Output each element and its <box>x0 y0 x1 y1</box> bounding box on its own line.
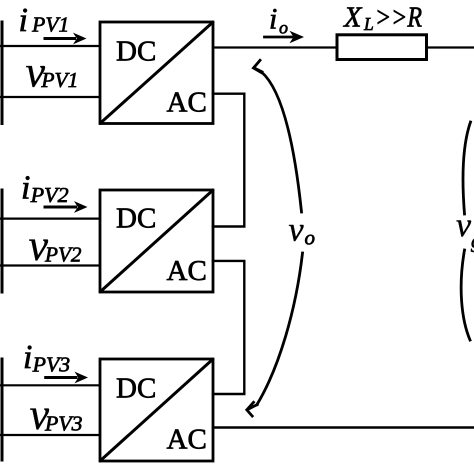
svg-text:PV2: PV2 <box>30 183 70 207</box>
svg-text:i: i <box>23 339 32 376</box>
svg-text:PV3: PV3 <box>32 353 71 377</box>
converter U3 box <box>100 359 213 461</box>
svg-text:DC: DC <box>116 36 156 68</box>
svg-text:AC: AC <box>167 423 207 455</box>
svg-text:v: v <box>289 212 305 249</box>
v_o arrowhead (top, pointing at top bus) <box>254 60 263 72</box>
label i_PV3 <box>23 339 70 377</box>
svg-text:i: i <box>269 3 277 36</box>
label v_PV2 <box>29 221 82 270</box>
label i_PV2 <box>21 170 69 208</box>
arrow: i_PV3 current direction <box>46 372 88 384</box>
label v_o <box>289 212 316 250</box>
arrow: i_o current direction <box>265 31 305 43</box>
wire: PV1 positive input <box>1 45 101 47</box>
svg-text:DC: DC <box>116 203 156 235</box>
svg-text:PV1: PV1 <box>40 68 78 92</box>
PV3 source lead (cropped at left edge) <box>1 359 4 460</box>
v_o measurement arc (lower segment) <box>257 253 303 405</box>
v_o measurement arc (upper segment) <box>262 72 302 212</box>
v_g measurement arc (upper segment, cropped at right) <box>463 122 471 214</box>
svg-text:X: X <box>343 3 363 34</box>
svg-text:i: i <box>21 170 30 207</box>
label v_PV3 <box>30 390 83 439</box>
svg-text:o: o <box>305 226 316 250</box>
wire: U1 to U2 series link <box>213 94 244 227</box>
wire: PV1 negative input <box>1 96 101 98</box>
arrow: i_PV1 current direction <box>45 33 87 45</box>
wire: to grid (right edge) <box>427 46 474 48</box>
svg-text:i: i <box>19 2 28 39</box>
svg-text:AC: AC <box>167 255 207 287</box>
converter U2 diagonal <box>101 191 213 292</box>
label X_L>>R <box>343 3 422 34</box>
impedance X_L (grid inductance) <box>337 35 427 60</box>
svg-text:PV2: PV2 <box>44 243 82 267</box>
wire: top AC output bus <box>213 46 337 48</box>
svg-text:o: o <box>279 18 288 38</box>
svg-text:v: v <box>456 207 472 244</box>
v_o arrowhead (bottom, pointing at return bus) <box>247 402 257 416</box>
arrow: i_PV2 current direction <box>45 201 88 213</box>
converter U3 diagonal <box>101 360 213 461</box>
label i_o <box>269 3 288 38</box>
v_g measurement arc (lower segment, cropped at right) <box>461 250 470 340</box>
PV2 source lead (cropped at left edge) <box>1 190 4 292</box>
PV1 source lead (cropped at left edge) <box>1 22 4 124</box>
svg-text:AC: AC <box>167 87 207 119</box>
svg-text:PV3: PV3 <box>44 412 83 436</box>
wire: PV2 positive input <box>1 218 101 220</box>
wire: PV2 negative input <box>1 264 101 266</box>
converter U1 box <box>100 22 213 124</box>
svg-text:L: L <box>363 14 374 34</box>
converter U2 box <box>100 190 213 292</box>
wire: PV3 positive input <box>1 384 101 386</box>
converter U1 diagonal <box>101 23 213 124</box>
wire: U2 to U3 series link <box>213 261 244 394</box>
svg-text:PV1: PV1 <box>31 13 69 37</box>
label v_g (cropped at right edge) <box>456 207 474 253</box>
wire: PV3 negative input <box>1 434 101 436</box>
wire: bottom return bus <box>213 426 474 428</box>
svg-text:>>R: >>R <box>375 3 422 34</box>
label i_PV1 <box>19 2 70 39</box>
label v_PV1 <box>26 48 79 97</box>
svg-text:DC: DC <box>116 373 156 405</box>
